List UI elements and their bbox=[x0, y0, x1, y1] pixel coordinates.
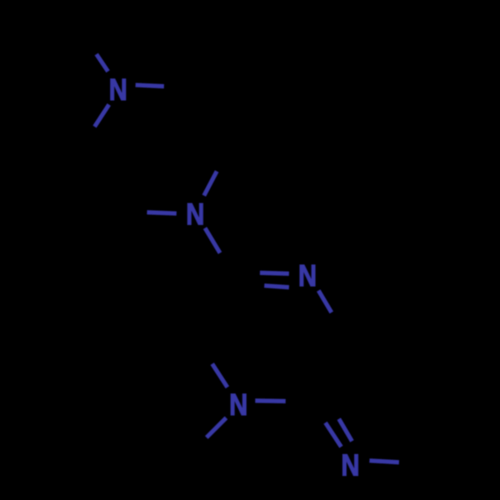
svg-text:N: N bbox=[109, 73, 128, 107]
svg-text:N: N bbox=[186, 197, 205, 231]
svg-text:N: N bbox=[298, 259, 317, 293]
svg-text:N: N bbox=[229, 388, 248, 422]
svg-text:N: N bbox=[341, 449, 360, 483]
